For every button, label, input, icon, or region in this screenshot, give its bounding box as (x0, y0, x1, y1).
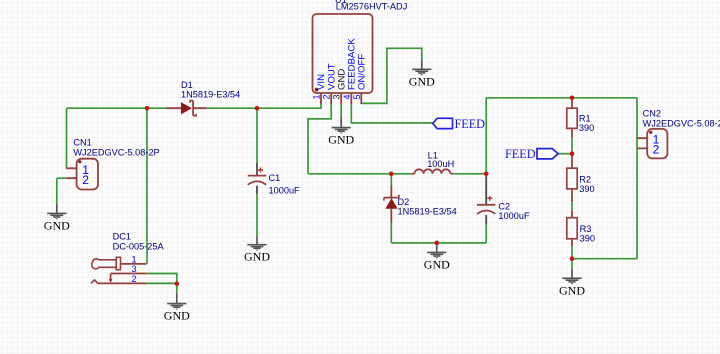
wire: FEEDBACK pin to FEED flag (351, 104, 432, 123)
svg-text:ON/OFF: ON/OFF (357, 54, 368, 90)
node: switch node / C2 (484, 172, 489, 177)
wire: R3 bottom (571, 246, 573, 259)
svg-text:1N5819-E3/54: 1N5819-E3/54 (398, 207, 457, 217)
svg-text:WJ2EDGVC-5.08-2P: WJ2EDGVC-5.08-2P (643, 119, 720, 129)
svg-text:3: 3 (132, 264, 137, 274)
wire: FEED flag2 to divider tap (558, 153, 572, 155)
node: bottom rail / gnd (435, 241, 440, 246)
svg-text:1000uF: 1000uF (498, 211, 530, 221)
svg-text:GND: GND (328, 133, 354, 147)
resistor R3 390 (567, 211, 595, 246)
svg-text:FEED: FEED (455, 117, 486, 131)
svg-text:FEED: FEED (505, 147, 536, 161)
svg-text:WJ2EDGVC-5.08-2P: WJ2EDGVC-5.08-2P (73, 147, 159, 157)
wire: DC1 pin2 to gnd node (147, 282, 177, 284)
node: output rail / R1 top (570, 96, 575, 101)
svg-text:390: 390 (580, 234, 595, 244)
svg-text:CN1: CN1 (73, 137, 91, 147)
node: rail / DC1 riser (145, 106, 150, 111)
wire: VOUT route to switch-node rail (308, 104, 331, 174)
svg-text:2: 2 (322, 94, 332, 99)
svg-text:C1: C1 (269, 173, 281, 183)
svg-text:2: 2 (82, 173, 89, 187)
node: switch node / D2 (389, 172, 394, 177)
node: rail / C1 branch (255, 106, 260, 111)
resistor R2 390 (567, 154, 595, 203)
diode D1 1N5819-E3/54 (167, 80, 241, 116)
wire: D2 top stub (390, 174, 392, 186)
ground ON/OFF (409, 59, 435, 88)
wire: R2-R3 gap (571, 202, 573, 210)
wire: C1 top branch (256, 108, 258, 163)
svg-text:R2: R2 (579, 174, 591, 184)
svg-text:CN2: CN2 (643, 108, 661, 118)
inductor L1 100uH (412, 151, 455, 174)
svg-text:GND: GND (244, 250, 270, 264)
svg-text:R3: R3 (580, 224, 592, 234)
wire: C2 node up riser (485, 98, 487, 174)
wire: DC1 pin1 riser x=147 (146, 108, 148, 264)
svg-text:2: 2 (653, 142, 660, 156)
wire: C2 bottom stub (485, 224, 487, 243)
net flag FEED (feedback, points left) (433, 117, 485, 131)
wire: CN1 pin2 to gnd (57, 178, 66, 203)
resistor R1 390 (567, 98, 594, 137)
wire: DC1 pin3 over and down (147, 274, 177, 294)
net flag FEED (divider tap, points right) (505, 147, 558, 161)
wire: IC GND pin stub down (340, 104, 342, 118)
diode D2 1N5819-E3/54 (384, 185, 457, 222)
ground R3 (559, 268, 585, 297)
svg-text:3: 3 (332, 94, 342, 99)
svg-text:GND: GND (424, 257, 450, 271)
svg-text:R1: R1 (579, 114, 591, 124)
wire: main input rail y=108 left of D1 (67, 107, 167, 109)
svg-text:D1: D1 (181, 80, 193, 90)
connector CN1 WJ2EDGVC-5.08-2P (66, 137, 159, 189)
svg-text:390: 390 (579, 184, 594, 194)
wire: switch node rail y=174 to L1 (308, 173, 412, 175)
svg-text:1: 1 (132, 254, 137, 264)
node: R3 bottom / gnd (570, 256, 575, 261)
node: divider tap R1/R2 (570, 151, 575, 156)
svg-text:5: 5 (352, 94, 362, 99)
svg-text:LM2576HVT-ADJ: LM2576HVT-ADJ (336, 2, 408, 12)
capacitor C1 1000uF (248, 163, 300, 196)
wire: bottom right rail (572, 258, 637, 260)
svg-text:1N5819-E3/54: 1N5819-E3/54 (181, 90, 240, 100)
ground DC1 (164, 294, 190, 323)
svg-text:DC1: DC1 (113, 232, 131, 242)
connector CN2 WJ2EDGVC-5.08-2P (637, 108, 720, 158)
connector DC1 DC-005-25A barrel jack (91, 232, 165, 285)
capacitor C2 1000uF (477, 174, 530, 225)
wire: C1 bottom to GND (256, 194, 258, 236)
ground D2/C2 rail (424, 243, 450, 272)
svg-text:GND: GND (164, 309, 190, 323)
wire: R3 node gnd stub (571, 259, 573, 269)
wire: output top rail (486, 97, 637, 99)
wire: main input rail y=108 right of D1 to VIN pin (207, 104, 321, 108)
wire: D2 bottom stub (390, 223, 392, 243)
svg-text:1: 1 (312, 94, 322, 99)
ground CN1 (44, 203, 70, 232)
wire: L1 right to C2 node (453, 173, 486, 175)
svg-text:GND: GND (559, 283, 585, 297)
ground C1 (244, 236, 270, 263)
wire: CN1 pin1 drop (66, 108, 68, 168)
wire: right vertical to CN2 (636, 98, 638, 259)
svg-text:2: 2 (132, 274, 137, 284)
svg-text:100uH: 100uH (427, 159, 454, 169)
wire: ON/OFF pin to gnd (361, 48, 422, 104)
svg-text:4: 4 (342, 94, 352, 99)
svg-text:1000uF: 1000uF (269, 186, 301, 196)
wire: R1-R2 gap (571, 137, 573, 154)
svg-text:GND: GND (409, 74, 435, 88)
op-amp U1 LM2576HVT-ADJ (312, 0, 408, 104)
svg-text:D2: D2 (398, 197, 410, 207)
wire: bottom rail D2-C2 (391, 242, 486, 244)
svg-text:390: 390 (579, 123, 594, 133)
svg-text:DC-005-25A: DC-005-25A (113, 241, 165, 251)
node: DC1 gnd (175, 281, 180, 286)
svg-text:GND: GND (44, 218, 70, 232)
ground IC pin3 (328, 118, 354, 147)
